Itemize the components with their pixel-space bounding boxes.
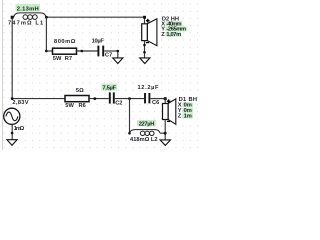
label 418mOhm L2 (130, 137, 158, 143)
resistor R7 (53, 39, 77, 62)
value label 7,5uF (highlighted) (102, 84, 118, 92)
svg-text:1mΩ: 1mΩ (14, 126, 25, 132)
svg-text:7,5µF: 7,5µF (102, 86, 116, 92)
inductor L2 (130, 130, 161, 136)
junction dot between R7 and C7 (81, 50, 84, 53)
svg-text:R7: R7 (65, 56, 72, 62)
speaker D2 (142, 19, 157, 46)
svg-text:800mΩ: 800mΩ (54, 39, 76, 45)
node: source junction (11, 97, 14, 100)
wire: R7 row left stub (46, 50, 52, 52)
ground terminal dot (D2) (143, 51, 146, 54)
ground (source) (7, 140, 17, 146)
resistor R6 (65, 88, 89, 109)
svg-text:C6: C6 (152, 100, 159, 106)
wire: left input rail (11, 17, 13, 98)
label X 0m (value highlighted) (178, 102, 193, 108)
svg-text:5W: 5W (65, 103, 74, 109)
junction dot at D2 + terminal (143, 16, 146, 19)
ground (D1/L2) (160, 140, 170, 146)
label 1mOhm (14, 126, 25, 132)
svg-text:1m: 1m (184, 114, 192, 120)
ground (C7 branch) (113, 58, 123, 64)
wire: L2 branch vertical (129, 99, 131, 134)
ground terminal dot (source) (11, 132, 14, 135)
junction dot at C7 ground corner (117, 50, 120, 53)
svg-text:2,83V: 2,83V (12, 100, 28, 106)
panel border (2, 0, 4, 150)
wire: R7 to C7 (77, 50, 98, 52)
terminal dot at L2 input (128, 132, 131, 135)
pin + of D2 (146, 19, 150, 23)
grid dots background (0, 0, 204, 150)
wire: D2 to ground (144, 41, 146, 58)
svg-text:2.13mH: 2.13mH (17, 6, 39, 12)
label D2 HH (162, 17, 179, 23)
wire: L2 to D1 ground node (160, 132, 165, 134)
pin + of D1 (167, 99, 171, 103)
svg-text:418mΩ L2: 418mΩ L2 (130, 137, 158, 143)
wire: bottom rail (12, 98, 65, 100)
svg-text:227µH: 227µH (139, 122, 155, 128)
svg-text:C2: C2 (115, 101, 122, 107)
pin - of D1 (167, 120, 170, 122)
svg-text:Z: Z (161, 32, 165, 38)
inductor L1 (14, 13, 46, 20)
svg-text:1,07m: 1,07m (166, 32, 181, 38)
wire: R7 branch vertical (45, 17, 47, 51)
input terminal (11, 16, 14, 19)
voltage source V1 (4, 108, 20, 124)
junction dot after R6 (93, 97, 96, 100)
svg-text:C7: C7 (105, 53, 112, 59)
capacitor C2 (110, 92, 123, 106)
junction dot at R7 input (45, 50, 48, 53)
label Y -265mm (value highlighted) (161, 27, 187, 33)
capacitor C6 (138, 85, 160, 106)
value label 227uH (highlighted) (137, 120, 156, 128)
wire: D2 drop (144, 17, 146, 24)
capacitor C7 (92, 39, 113, 59)
wire: C7 to ground (104, 51, 118, 58)
node: D1/L2 ground junction (164, 132, 167, 135)
wire: source to ground (11, 124, 13, 139)
label D1 BH (179, 97, 197, 103)
label 2,83V (12, 100, 28, 106)
svg-text:R6: R6 (79, 103, 86, 109)
wire: C2 to C6 (115, 98, 144, 100)
node: C2/C6/L2 junction (128, 97, 131, 100)
label Z 1,07m (value highlighted) (161, 32, 181, 38)
label Y 0m (value highlighted) (178, 108, 193, 114)
pin - of D2 (146, 42, 149, 44)
label 747mOhm L1 (8, 20, 43, 26)
wire: D1 drop (164, 99, 166, 104)
wire: D1 to L2 node (164, 120, 166, 140)
label Z 1m (value highlighted) (178, 113, 193, 119)
speaker D1 (163, 99, 176, 125)
label X -40mm (value highlighted) (161, 21, 182, 27)
junction dot at D1 + terminal (164, 97, 167, 100)
svg-text:5W: 5W (53, 56, 62, 62)
wire: top rail to D2 (46, 16, 144, 18)
svg-text:747mΩ L1: 747mΩ L1 (8, 20, 43, 26)
terminal dot below D2 (143, 44, 146, 47)
value label 2.13mH (highlighted) (16, 4, 41, 12)
wire: C6 to D1 (150, 98, 165, 100)
svg-text:5Ω: 5Ω (76, 88, 84, 94)
svg-text:Z: Z (178, 114, 182, 120)
wire: R6 to C2 (89, 98, 109, 100)
svg-text:10µF: 10µF (92, 39, 105, 45)
svg-text:12.2µF: 12.2µF (138, 85, 160, 91)
ground (D2) (140, 58, 150, 64)
node A: junction L1 / top rail / R7 branch (45, 16, 48, 19)
